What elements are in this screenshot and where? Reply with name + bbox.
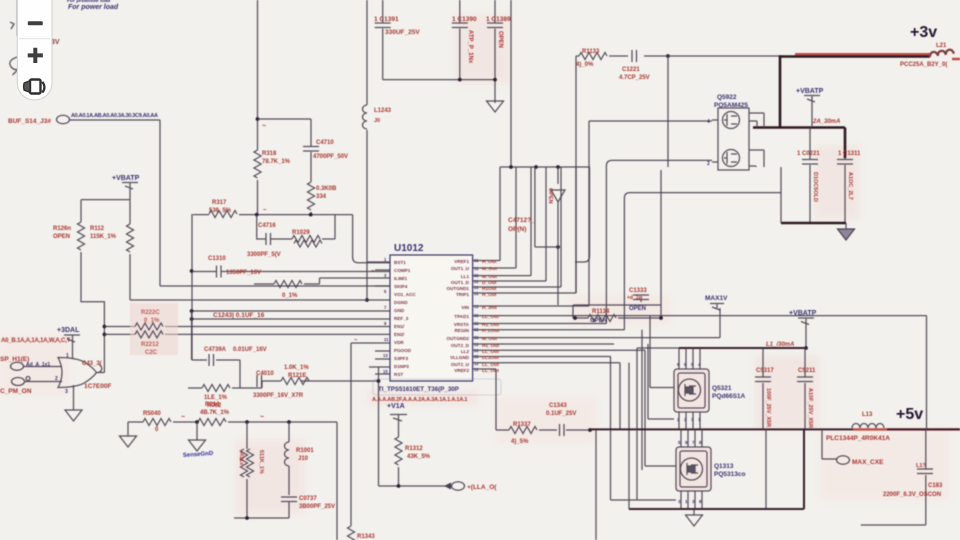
- svg-text:C1243| 0.1UF_16: C1243| 0.1UF_16: [213, 312, 265, 319]
- red pin net labels right: [474, 258, 479, 372]
- svg-text:R1001: R1001: [296, 448, 314, 454]
- viewer control pill: [17, 0, 52, 100]
- svg-text:11: 11: [474, 327, 479, 332]
- junction: [103, 325, 107, 329]
- svg-text:1 C0221: 1 C0221: [797, 151, 820, 157]
- thick vertical x845: [844, 128, 847, 159]
- svg-text:Q1313: Q1313: [714, 463, 734, 470]
- +3v dark rail: [780, 55, 930, 58]
- svg-text:OPEN: OPEN: [53, 234, 70, 240]
- svg-text:11: 11: [474, 321, 479, 326]
- gate wire y121: [589, 120, 712, 122]
- svg-text:R1133: R1133: [582, 49, 600, 55]
- capacitor C1391: [382, 0, 384, 80]
- svg-text:R014: R014: [205, 402, 220, 408]
- zoom-out minus button: [28, 21, 43, 25]
- svg-text:L1?: L1?: [916, 463, 926, 469]
- connector MAX_CXE: [822, 429, 837, 459]
- svg-text:1 C1391: 1 C1391: [374, 16, 399, 23]
- svg-text:1: 1: [66, 353, 69, 359]
- svg-text:+VBATP: +VBATP: [789, 310, 817, 317]
- +5v rail thick: [590, 428, 853, 430]
- svg-text:COMP1: COMP1: [394, 268, 411, 273]
- wire y509: [629, 508, 804, 510]
- svg-text:+3v: +3v: [910, 24, 937, 41]
- svg-text:H_Out: H_Out: [482, 259, 497, 265]
- svg-text:11: 11: [474, 279, 479, 284]
- svg-text:OPEN: OPEN: [547, 188, 553, 204]
- svg-text:J0: J0: [374, 118, 380, 124]
- resistor R1133: [576, 55, 628, 57]
- svg-text:115K_1%: 115K_1%: [90, 234, 117, 240]
- svg-text:13: 13: [383, 353, 388, 358]
- svg-text:VDR: VDR: [394, 340, 404, 345]
- svg-text:~: ~: [181, 414, 185, 421]
- inductor L21: [929, 49, 953, 57]
- IC left pin stubs: [367, 262, 390, 374]
- svg-text:43K_5%: 43K_5%: [407, 454, 431, 460]
- svg-text:+(LLA_O(: +(LLA_O(: [467, 484, 497, 491]
- svg-text:ILIM/1: ILIM/1: [394, 276, 407, 281]
- svg-text:OUT2_U: OUT2_U: [451, 362, 470, 367]
- svg-text:For power load: For power load: [68, 4, 119, 11]
- svg-text:11: 11: [474, 342, 479, 347]
- svg-text:R1337: R1337: [513, 422, 531, 428]
- svg-text:OUT1_D: OUT1_D: [451, 280, 470, 285]
- IC right pin stubs and nets: [473, 261, 927, 370]
- svg-text:LL_Out: LL_Out: [482, 314, 499, 320]
- svg-text:D_Out: D_Out: [482, 280, 497, 286]
- svg-text:0_1%: 0_1%: [144, 318, 160, 324]
- svg-text:L13: L13: [862, 412, 873, 418]
- svg-text:VREF1: VREF1: [454, 259, 469, 264]
- svg-text:R1312: R1312: [405, 446, 423, 452]
- svg-text:1LE_1%: 1LE_1%: [204, 395, 228, 401]
- resistor R334: [308, 182, 315, 210]
- svg-text:OPEN: OPEN: [497, 31, 503, 48]
- svg-text:100F_25V_X5R: 100F_25V_X5R: [765, 388, 771, 427]
- svg-text:2: 2: [55, 376, 58, 382]
- capacitor C0737: [281, 497, 297, 502]
- svg-text:15: 15: [383, 369, 388, 374]
- svg-text:C1221: C1221: [622, 67, 640, 73]
- resistor R318: [257, 148, 259, 150]
- staircase verticals: [500, 167, 576, 293]
- svg-text:1 C1389: 1 C1389: [486, 16, 511, 23]
- svg-text:4)_5%: 4)_5%: [511, 439, 529, 445]
- svg-text:0_1%: 0_1%: [282, 293, 298, 299]
- svg-text:R31x: R31x: [238, 452, 244, 466]
- diode D1201: [551, 167, 565, 247]
- svg-text:C1333: C1333: [629, 288, 647, 294]
- svg-text:PQd66S1A: PQd66S1A: [712, 393, 746, 400]
- svg-text:L1_/30mA: L1_/30mA: [766, 342, 794, 348]
- svg-text:330UF_25V: 330UF_25V: [385, 29, 420, 36]
- svg-text:SKIP4: SKIP4: [394, 284, 408, 289]
- svg-text:GND: GND: [394, 308, 405, 313]
- svg-text:11: 11: [474, 258, 479, 263]
- svg-text:C4712?_: C4712?_: [508, 217, 535, 224]
- svg-text:R318: R318: [262, 151, 277, 157]
- svg-text:1.0K_1%: 1.0K_1%: [284, 365, 309, 371]
- wire vertical x668: [667, 56, 669, 167]
- svg-text:4.7CP_25V: 4.7CP_25V: [619, 75, 650, 81]
- svg-text:+VBATP: +VBATP: [112, 175, 140, 182]
- svg-text:DGND: DGND: [394, 300, 408, 305]
- svg-text:OUT1_U: OUT1_U: [451, 266, 470, 271]
- wire vertical x367 top: [366, 0, 368, 105]
- junction: [190, 309, 194, 313]
- thick rail y127.5: [753, 126, 845, 129]
- wire y500: [637, 348, 676, 500]
- svg-text:OUTGND2: OUTGND2: [447, 336, 470, 341]
- svg-text:M_Out: M_Out: [482, 336, 497, 342]
- IC left pin numbers: [383, 257, 389, 374]
- or-gate output loop: [97, 365, 105, 373]
- IC bottom-left net wire: [351, 343, 390, 526]
- svg-text:11: 11: [474, 335, 479, 340]
- ground below Q5313: [693, 509, 695, 515]
- svg-text:R1029: R1029: [292, 230, 310, 236]
- svg-text:+V1A: +V1A: [387, 403, 405, 410]
- svg-text:VLLGND: VLLGND: [450, 355, 470, 360]
- wire vertical x781: [780, 167, 782, 223]
- svg-text:1 C1390: 1 C1390: [452, 16, 477, 23]
- box wires right of IC: [573, 170, 661, 318]
- wire vertical x369: [378, 367, 380, 486]
- svg-text:+VBATP: +VBATP: [796, 88, 824, 95]
- junction: [256, 117, 260, 121]
- mosfet Q5321: [679, 348, 700, 369]
- bus line B: [192, 310, 390, 312]
- svg-text:L21: L21: [936, 43, 947, 49]
- bus line E: [104, 333, 390, 335]
- junction: [509, 165, 513, 169]
- Q5313 bottom stubs: [681, 491, 702, 509]
- svg-text:~: ~: [371, 269, 375, 275]
- junction: [493, 78, 497, 82]
- ground below gate: [73, 385, 75, 410]
- IC right pin names: [447, 259, 470, 373]
- resistor R062: [188, 381, 266, 388]
- wire vertical x367 to IC: [366, 130, 368, 300]
- svg-text:11: 11: [474, 266, 479, 271]
- svg-text:LL1: LL1: [461, 274, 470, 279]
- wire to +3v corner: [668, 55, 780, 57]
- svg-text:REF_3: REF_3: [394, 316, 409, 321]
- wire squiggle connector left: [10, 57, 19, 75]
- svg-text:4: 4: [707, 119, 710, 125]
- capacitor C1221: [632, 50, 637, 62]
- svg-text:4B.7K_1%: 4B.7K_1%: [200, 410, 230, 416]
- wire left vertical behind overlay: [17, 0, 19, 36]
- svg-text:J10: J10: [298, 456, 309, 462]
- svg-text:1350PF_16V: 1350PF_16V: [226, 270, 261, 276]
- svg-text:REGIN: REGIN: [454, 328, 469, 333]
- speaker icon: [24, 80, 45, 94]
- wire vertical x576: [575, 56, 577, 293]
- svg-text:TI_TPS51610ET_T36(P_30P: TI_TPS51610ET_T36(P_30P: [378, 386, 459, 393]
- svg-text:BST1: BST1: [394, 260, 406, 265]
- svg-text:C4739A: C4739A: [204, 347, 227, 353]
- wire y486: [379, 485, 448, 487]
- svg-text:C183: C183: [928, 483, 943, 489]
- nested corner wire pin9: [624, 193, 781, 330]
- svg-text:11: 11: [384, 337, 389, 342]
- svg-text:R222C: R222C: [141, 310, 160, 316]
- svg-text:2: 2: [707, 161, 710, 167]
- svg-text:11: 11: [474, 313, 479, 318]
- svg-text:3300PF_5(V: 3300PF_5(V: [247, 252, 281, 258]
- thick wire y223: [781, 222, 846, 225]
- wire vertical x511: [510, 0, 512, 167]
- svg-text:Q5321: Q5321: [712, 385, 732, 392]
- +3v red rail: [795, 54, 960, 59]
- svg-text:C2C: C2C: [145, 350, 158, 356]
- capacitor C1389: [494, 0, 496, 103]
- svg-text:D1OC5OLD: D1OC5OLD: [812, 172, 818, 202]
- svg-text:H_Out: H_Out: [482, 292, 497, 298]
- svg-text:R1343: R1343: [357, 534, 375, 540]
- svg-text:+3DAL: +3DAL: [57, 327, 80, 334]
- svg-text:11: 11: [474, 304, 479, 309]
- capacitor C1390: [459, 0, 461, 80]
- svg-text:0.1UF_25V: 0.1UF_25V: [546, 411, 576, 417]
- svg-text:11: 11: [474, 273, 479, 278]
- thick vertical x804: [803, 429, 805, 509]
- bus line D: [104, 326, 390, 328]
- svg-text:PLC1344P_4R0K41A: PLC1344P_4R0K41A: [826, 435, 890, 442]
- svg-text:LL_Out: LL_Out: [482, 349, 499, 355]
- svg-text:BUF_S14_J3#: BUF_S14_J3#: [8, 118, 51, 125]
- svg-text:VRSTA: VRSTA: [454, 322, 470, 327]
- svg-text:A0_B.1A,A,1A,1A,W,A,C,T: A0_B.1A,A,1A,1A,W,A,C,T: [1, 338, 71, 344]
- IC left pin names: [394, 260, 416, 377]
- ground right block: [845, 223, 847, 229]
- svg-text:R1134: R1134: [592, 309, 610, 315]
- bus line C: [192, 318, 390, 320]
- svg-text:2A_30mA: 2A_30mA: [812, 119, 840, 125]
- svg-text:+5v: +5v: [896, 406, 923, 423]
- svg-text:11: 11: [474, 291, 479, 296]
- svg-text:EN1/: EN1/: [394, 324, 405, 329]
- svg-text:LL_Out: LL_Out: [482, 368, 499, 374]
- svg-text:RST: RST: [394, 372, 403, 377]
- svg-text:11: 11: [474, 354, 479, 359]
- svg-text:D1NP3: D1NP3: [394, 364, 409, 369]
- svg-text:H1_Out: H1_Out: [482, 343, 499, 349]
- svg-text:4700PF_50V: 4700PF_50V: [313, 154, 348, 160]
- svg-text:MAX_CXE: MAX_CXE: [852, 459, 884, 466]
- svg-text:511K_1%: 511K_1%: [258, 450, 264, 474]
- svg-text:78.7K_1%: 78.7K_1%: [262, 159, 291, 165]
- resistor R1312: [395, 437, 402, 465]
- svg-text:3B00PF_25V: 3B00PF_25V: [299, 504, 335, 510]
- wire cap bank bottom: [383, 79, 495, 81]
- svg-text:C1343: C1343: [549, 403, 567, 409]
- svg-text:C4716: C4716: [258, 223, 276, 229]
- svg-text:~: ~: [263, 208, 267, 214]
- svg-text:3: 3: [65, 389, 68, 395]
- svg-text:4)_0%: 4)_0%: [576, 62, 594, 68]
- resistor R126 OPEN: [78, 222, 85, 250]
- resistor R112 115K: [127, 224, 134, 252]
- svg-text:1C7E00F: 1C7E00F: [84, 383, 111, 390]
- connector input 2: [12, 378, 25, 386]
- svg-text:PQ5313co: PQ5313co: [714, 471, 745, 478]
- svg-text:For preamble load: For preamble load: [67, 0, 111, 4]
- svg-text:MAX1V: MAX1V: [705, 295, 728, 302]
- svg-text:LL2: LL2: [461, 349, 470, 354]
- svg-text:334: 334: [316, 194, 327, 200]
- svg-text:OUTGND1: OUTGND1: [447, 286, 470, 291]
- svg-text:VIN: VIN: [461, 305, 469, 310]
- svg-text:~: ~: [260, 414, 264, 421]
- svg-text:2200F_6.3V_OSCON: 2200F_6.3V_OSCON: [883, 492, 941, 498]
- svg-text:VO1_ACC: VO1_ACC: [394, 292, 416, 297]
- svg-text:11: 11: [474, 348, 479, 353]
- thick wire y348: [679, 347, 806, 349]
- wire vertical x192: [191, 214, 193, 360]
- svg-text:11: 11: [474, 361, 479, 366]
- capacitor C183: [861, 316, 927, 525]
- wire y119: [258, 118, 312, 120]
- wire from BUF oval: [70, 120, 391, 286]
- svg-text:TRIP1: TRIP1: [456, 292, 469, 297]
- wire x766 loop: [765, 429, 767, 508]
- svg-text:~: ~: [262, 123, 266, 130]
- junction at staircase top: [556, 245, 560, 249]
- ground SenseGND: [196, 422, 198, 440]
- resistor R222C pair: [130, 303, 178, 355]
- svg-text:VREF2: VREF2: [454, 368, 469, 373]
- svg-text:Q5922: Q5922: [717, 94, 737, 101]
- svg-text:C1310: C1310: [208, 256, 226, 262]
- svg-text:C4010: C4010: [256, 371, 274, 377]
- svg-text:OUT2_D: OUT2_D: [451, 343, 470, 348]
- wire vertical x258 top: [257, 0, 259, 148]
- svg-text:TPAD1: TPAD1: [454, 314, 469, 319]
- wire y518: [234, 517, 289, 519]
- capacitor C4710: [310, 119, 312, 182]
- divider: [19, 38, 50, 40]
- inductor L13: [852, 424, 876, 429]
- svg-text:OP(N): OP(N): [508, 226, 526, 233]
- svg-text:R121E: R121E: [288, 373, 306, 379]
- svg-text:H1_Out: H1_Out: [482, 322, 499, 328]
- IC part number box: [373, 379, 501, 395]
- svg-text:R112: R112: [90, 226, 105, 232]
- svg-text:0.01UF_16V: 0.01UF_16V: [233, 347, 267, 353]
- zoom-in plus button: [28, 48, 43, 63]
- svg-text:A1OC_2L7: A1OC_2L7: [847, 172, 853, 200]
- svg-text:LL_Out: LL_Out: [482, 362, 499, 368]
- ground below C1389: [487, 101, 504, 112]
- svg-text:H_3nd: H_3nd: [482, 305, 497, 311]
- mosfet Q5313: [681, 429, 702, 447]
- svg-text:1 C1311: 1 C1311: [838, 151, 861, 157]
- svg-text:C5317: C5317: [756, 368, 774, 374]
- svg-text:0.3K0B: 0.3K0B: [316, 186, 337, 192]
- svg-text:11: 11: [474, 367, 479, 372]
- wire jog from R126 to gate vertical: [81, 252, 104, 373]
- svg-text:M_Out: M_Out: [482, 274, 497, 280]
- svg-text:U1012: U1012: [394, 243, 424, 254]
- wire y199.6: [81, 200, 130, 224]
- svg-text:R2212: R2212: [141, 342, 159, 348]
- resistor R121E: [281, 378, 309, 385]
- svg-text:H_LOut: H_LOut: [482, 328, 500, 334]
- nested corner wire pin8: [606, 160, 712, 323]
- ground left of R5040: [127, 422, 129, 436]
- wire x337 to bottom: [336, 422, 338, 540]
- junction: [666, 54, 670, 58]
- inductor L1001: [288, 422, 290, 442]
- svg-text:L1243: L1243: [374, 108, 392, 114]
- svg-text:C5211: C5211: [798, 368, 816, 374]
- svg-text:C_PM_ON: C_PM_ON: [0, 388, 32, 395]
- svg-text:EN2/: EN2/: [394, 332, 405, 337]
- svg-text:PGOOD: PGOOD: [394, 348, 412, 353]
- svg-text:R126n: R126n: [53, 226, 71, 232]
- svg-text:PCC25A_B2Y_0(: PCC25A_B2Y_0(: [900, 62, 947, 68]
- wire vertical x191.6: [191, 311, 193, 360]
- source wire y167: [500, 167, 590, 262]
- svg-text:C43_3(: C43_3(: [82, 361, 102, 367]
- or-gate U--: [58, 358, 97, 388]
- inductor L1243: [363, 105, 368, 129]
- junction: [458, 78, 462, 82]
- svg-text:ATP_P_1Nx: ATP_P_1Nx: [467, 30, 473, 64]
- svg-text:LL1Out: LL1Out: [482, 355, 499, 361]
- svg-text:H1Out: H1Out: [482, 286, 497, 292]
- Q5321 bottom stubs: [679, 412, 700, 429]
- svg-text:M_Out: M_Out: [482, 266, 497, 272]
- svg-text:OPEN: OPEN: [629, 306, 646, 312]
- svg-text:11: 11: [474, 285, 479, 290]
- svg-text:3300PF_16V_X7R: 3300PF_16V_X7R: [253, 393, 304, 399]
- svg-text:C4710: C4710: [316, 140, 334, 146]
- svg-text:A10F_25V_X5R: A10F_25V_X5R: [807, 388, 813, 428]
- svg-text:R317: R317: [212, 200, 227, 206]
- connector +VLLA_ON: [444, 483, 451, 490]
- svg-text:R5040: R5040: [143, 411, 161, 417]
- svg-text:C0737: C0737: [299, 496, 317, 502]
- svg-text:S3PF3: S3PF3: [394, 356, 408, 361]
- svg-text:A0.A0.1A.AB.A0.A0.3A.30.3C9.A0: A0.A0.1A.AB.A0.A0.3A.30.3C9.A0.AA: [71, 113, 158, 119]
- resistor pair R511 511K: [246, 422, 248, 449]
- thick vertical x780: [779, 55, 782, 127]
